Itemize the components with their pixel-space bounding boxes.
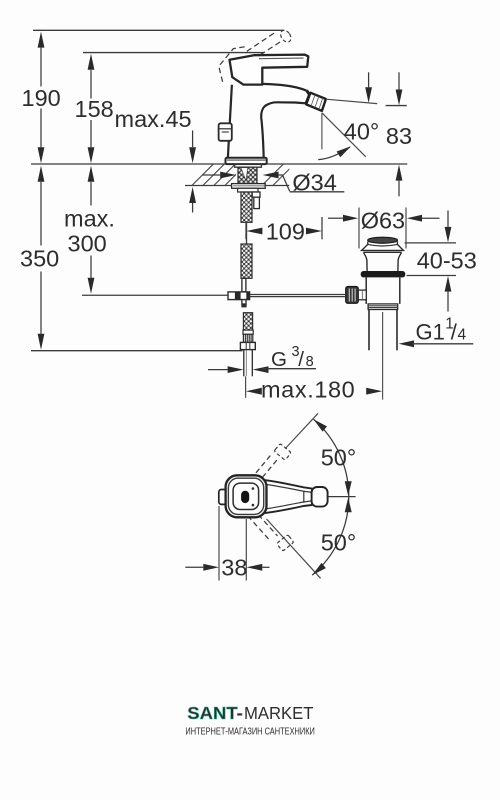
svg-text:G: G bbox=[271, 348, 287, 371]
pop-up coupling ribs bbox=[368, 304, 398, 310]
threaded shank bbox=[238, 167, 257, 183]
faucet base plate bbox=[226, 158, 267, 164]
spout top edge bbox=[262, 84, 306, 91]
faucet body left edge bbox=[228, 85, 232, 158]
hose ferrule bbox=[243, 330, 253, 334]
svg-text:max.45: max.45 bbox=[115, 106, 192, 132]
svg-text:MARKET: MARKET bbox=[244, 703, 314, 723]
mounting washer under deck bbox=[235, 164, 262, 167]
dashed cap lower bbox=[277, 535, 294, 552]
dashed cap upper bbox=[274, 444, 291, 461]
svg-text:G1: G1 bbox=[416, 320, 445, 345]
svg-text:40-53: 40-53 bbox=[417, 248, 477, 274]
dimension max.45 x=192.6 bbox=[192, 131, 194, 213]
dashed lever tip cap bbox=[279, 28, 293, 44]
wire: 158 reference line (lever arm level) bbox=[83, 52, 264, 54]
svg-text:max.: max. bbox=[64, 206, 115, 232]
handle capsule mark bbox=[241, 491, 249, 503]
svg-text:109: 109 bbox=[266, 219, 305, 245]
svg-text:38: 38 bbox=[221, 555, 247, 581]
wire: deck top line bbox=[31, 163, 407, 165]
40 degree spray direction line bbox=[322, 113, 366, 157]
svg-text:8: 8 bbox=[306, 354, 314, 370]
hose ribbed coupling bbox=[243, 334, 252, 342]
G3/8 connector tube bbox=[243, 350, 245, 376]
wire: 350 bottom reference line bbox=[31, 350, 243, 352]
aerator stripes bbox=[311, 95, 323, 110]
spout tab left bbox=[219, 490, 229, 505]
pop-up upper body taper bbox=[363, 253, 367, 272]
shank collar bbox=[238, 188, 258, 192]
svg-text:Ø63: Ø63 bbox=[361, 207, 405, 233]
dimension 158 / max300 line x=91 bbox=[90, 70, 92, 278]
svg-text:SANT-: SANT- bbox=[187, 703, 243, 723]
label Ø34 with underline bbox=[290, 191, 345, 193]
dimension 190 line x=41 bbox=[40, 48, 42, 334]
svg-text:max.180: max.180 bbox=[261, 376, 355, 402]
50deg thin line lower bbox=[267, 519, 321, 578]
Ø63 extension lines bbox=[358, 208, 360, 249]
lever end cap top view bbox=[312, 487, 328, 507]
pop-up lower body bbox=[365, 277, 367, 304]
faucet body right edge and spout underside bbox=[261, 102, 305, 158]
pop-up tailpipe bbox=[368, 310, 370, 351]
braided hose segment 2 bbox=[241, 244, 252, 278]
handle face dots bbox=[252, 487, 255, 490]
dimension max.180 bbox=[246, 388, 262, 395]
centerline stub and opposing arrows bbox=[328, 496, 356, 498]
tailpipe centerline / extension bbox=[382, 312, 384, 400]
lever arm top view bbox=[263, 480, 312, 513]
rod knob on pop-up bbox=[346, 287, 359, 304]
rod cross fitting bbox=[228, 292, 250, 300]
svg-text:50°: 50° bbox=[321, 444, 357, 470]
horizontal pop-up rod bbox=[250, 294, 347, 296]
pop-up flange bbox=[362, 244, 404, 250]
50deg arc upper bbox=[314, 419, 349, 496]
83 bottom arrow to deck bbox=[396, 165, 403, 181]
lift rod below fitting bbox=[242, 300, 246, 304]
mounting nut bbox=[232, 184, 266, 189]
svg-text:158: 158 bbox=[75, 96, 114, 122]
svg-text:Ø34: Ø34 bbox=[292, 170, 336, 196]
arrow onto leader bbox=[368, 72, 370, 87]
shank white wedge bbox=[241, 168, 248, 181]
spout end face bbox=[306, 90, 310, 103]
aerator bbox=[306, 93, 326, 111]
pop-up rod fitting right of hose bbox=[252, 192, 260, 197]
svg-text:4: 4 bbox=[458, 327, 467, 344]
knob stem bbox=[358, 290, 366, 300]
lever arm inner line bbox=[259, 57, 304, 60]
braided hose segment 3 bbox=[243, 313, 252, 330]
dashed lever rotated up bbox=[251, 453, 279, 484]
dimension G3/8 bbox=[208, 369, 228, 371]
hose hex nut bbox=[240, 342, 255, 349]
svg-text:83: 83 bbox=[386, 123, 412, 149]
dashed lever rotated down bbox=[248, 508, 278, 541]
dashed lever (raised position) bbox=[219, 32, 282, 84]
label G1 1/4 with leader bbox=[399, 340, 414, 347]
side knob on faucet body bbox=[219, 123, 232, 141]
solid lever handle bbox=[230, 55, 309, 85]
braided hose segment 1 bbox=[241, 192, 252, 222]
50deg thin line upper bbox=[285, 413, 318, 448]
pop-up lift rod upper bbox=[246, 222, 248, 244]
wire: max300 tick / pop-up rod line left bbox=[82, 294, 228, 296]
50deg arc lower bbox=[312, 497, 349, 575]
svg-text:300: 300 bbox=[68, 231, 107, 257]
rod end cap bbox=[241, 304, 246, 307]
deck hole (white gap for faucet shank) bbox=[236, 165, 262, 186]
deck hatching bbox=[181, 164, 294, 185]
dimension Ø34 arrows at deck hole bbox=[203, 174, 221, 176]
handle head mid ring bbox=[228, 478, 263, 514]
pop-up seal ring bbox=[361, 271, 406, 277]
dimension 40-53 bbox=[405, 242, 456, 244]
svg-text:/: / bbox=[298, 348, 304, 371]
dimension 83: leader from aerator bbox=[326, 99, 377, 103]
dimension 109 bbox=[245, 222, 247, 240]
svg-text:40°: 40° bbox=[344, 118, 380, 144]
dimension 38 bbox=[218, 506, 220, 581]
wire: top reference line (lever tip level) bbox=[33, 29, 284, 31]
40 degree angle: vertical reference bbox=[321, 113, 323, 150]
wire: deck bottom line bbox=[185, 185, 289, 187]
dimension Ø63 bbox=[328, 217, 343, 219]
lift rod middle bbox=[242, 278, 246, 292]
svg-text:350: 350 bbox=[20, 246, 59, 272]
83 top tick bbox=[386, 105, 407, 107]
svg-text:50°: 50° bbox=[321, 529, 357, 555]
pop-up plug cap bbox=[368, 237, 398, 243]
handle head outer bbox=[226, 475, 267, 517]
handle head inner face bbox=[233, 483, 259, 509]
40 degree arc with arrowhead bbox=[318, 147, 350, 160]
svg-text:ИНТЕРНЕТ-МАГАЗИН САНТЕХНИКИ: ИНТЕРНЕТ-МАГАЗИН САНТЕХНИКИ bbox=[185, 726, 315, 737]
extension line below tube bbox=[245, 376, 247, 398]
svg-text:190: 190 bbox=[22, 85, 61, 111]
